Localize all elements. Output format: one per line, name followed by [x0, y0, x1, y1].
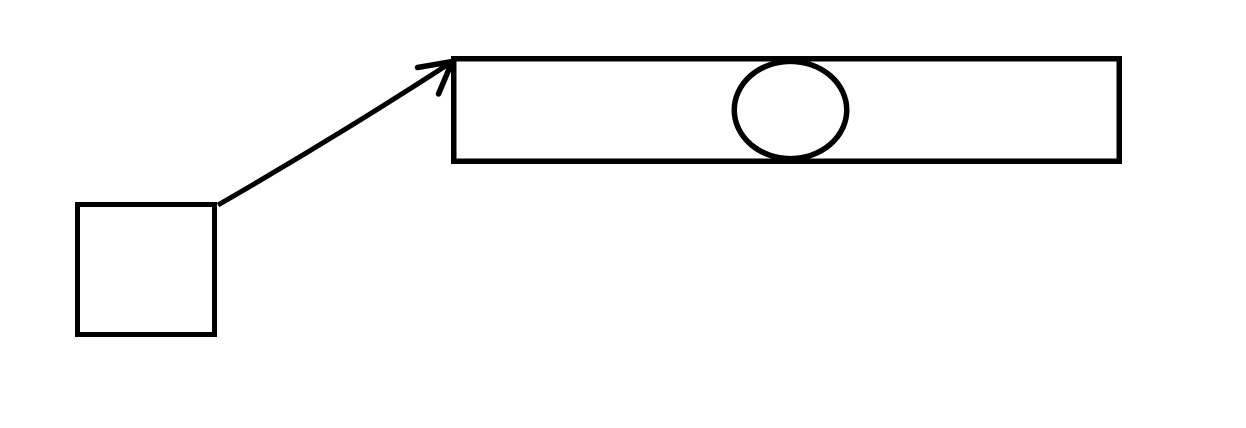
arrowhead lower barb [439, 62, 453, 94]
square node [78, 205, 215, 335]
wire arrow shaft [218, 62, 453, 206]
arrowhead upper barb [418, 62, 453, 68]
rectangle node [454, 59, 1120, 162]
circle [734, 61, 847, 158]
